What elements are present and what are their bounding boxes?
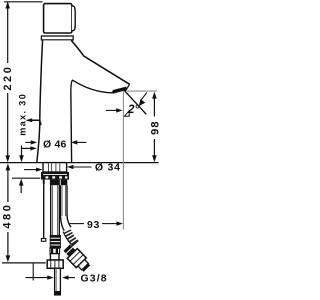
spout tip face (125, 84, 129, 91)
aerator (112, 87, 127, 94)
svg-text:G3/8: G3/8 (81, 273, 108, 285)
G3/8 left arrow (26, 275, 54, 279)
hose fittings below nut (43, 180, 68, 186)
faucet handle (44, 4, 72, 33)
pull rod (43, 184, 45, 238)
top extension line (4, 1, 43, 3)
svg-text:Ø 34: Ø 34 (95, 161, 121, 173)
dimension 98 arrowheads (152, 92, 157, 163)
mounting nut (41, 172, 69, 180)
angle arrow at spout line (139, 93, 147, 107)
svg-text:max. 30: max. 30 (17, 93, 27, 136)
left supply hose (51, 185, 60, 235)
dimension 220 vertical line (7, 2, 9, 157)
dimension 93 arrowhead (117, 221, 123, 225)
max 30 limit tick line (12, 177, 40, 179)
left hose crimp sleeve (50, 235, 61, 248)
angle symbol (124, 111, 129, 117)
spout top edge (71, 40, 129, 84)
G3/8 right arrow (62, 275, 75, 279)
dimension 480 arrowheads (6, 163, 11, 262)
right hose braided diagonal (66, 230, 75, 244)
select button tab (72, 6, 75, 31)
max 30 dimension line upper (22, 146, 34, 158)
dimension 98 vertical line (153, 96, 155, 158)
max 30 arrow to base edge (30, 146, 36, 150)
handle collar band (41, 36, 73, 40)
threaded tail pipe (55, 268, 61, 295)
left hose end bars (50, 248, 60, 253)
svg-text:98: 98 (150, 120, 161, 135)
spout angle line (122, 88, 146, 114)
svg-text:480: 480 (1, 203, 13, 229)
diameter 46 right arrow (71, 140, 86, 144)
diameter 34 right arrow and label (67, 165, 92, 169)
angled hose connector G3/8 (62, 243, 92, 274)
svg-text:220: 220 (2, 65, 14, 91)
grey vertical reference line (122, 91, 124, 229)
max 30 up arrowhead below tick (19, 179, 24, 193)
right hose bend (60, 216, 65, 232)
grey horizontal reference line (127, 90, 157, 92)
shank inner lines (48, 163, 59, 171)
arrow to shank below counter (24, 168, 42, 172)
480 bottom extension line (2, 262, 46, 264)
right supply hose straight part (60, 185, 67, 216)
max 30 down arrowhead at counter (19, 155, 24, 162)
dimension 93 line (69, 223, 118, 225)
G3/8 nut on straight hose (47, 260, 63, 268)
max 30 leader arrow to body (26, 118, 41, 125)
svg-text:Ø 46: Ø 46 (43, 139, 67, 151)
svg-text:2°: 2° (127, 103, 139, 116)
counter deck line (0, 162, 159, 164)
faucet body and spout outline (37, 40, 130, 162)
diameter 46 left arrow (25, 140, 37, 144)
dimension 220 arrowheads (5, 2, 10, 163)
svg-text:93: 93 (87, 219, 100, 231)
dimension 480 vertical line (7, 169, 9, 258)
compression ring (50, 254, 59, 260)
mounting shank (43, 163, 67, 172)
G3/8 left extension line (32, 263, 34, 281)
angle arrow at reference line (106, 108, 123, 112)
